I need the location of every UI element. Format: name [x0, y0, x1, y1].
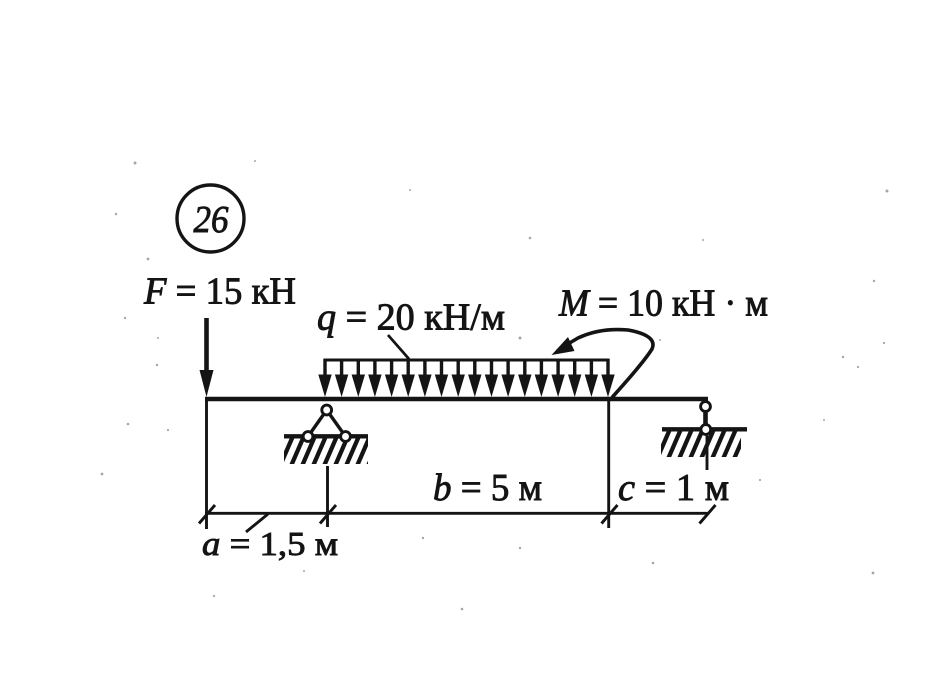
roller support hinge circles [701, 402, 711, 435]
svg-text:a = 1,5 м: a = 1,5 м [202, 526, 338, 563]
dimension tick left end [199, 505, 215, 524]
svg-text:c = 1 м: c = 1 м [618, 467, 729, 509]
svg-text:26: 26 [194, 199, 229, 241]
load arrow 5 [385, 359, 398, 397]
scan speckles [101, 160, 889, 610]
roller support link [703, 406, 708, 429]
load arrow 18 [601, 359, 614, 397]
pin support triangle [308, 410, 346, 437]
dimension tick load end [602, 505, 618, 524]
problem number circle 26 [177, 185, 244, 252]
extension line load end [607, 401, 610, 528]
pin support hinge circles [303, 405, 350, 441]
pin support ground line [284, 434, 368, 438]
load arrow 6 [402, 359, 415, 397]
extension line left end [205, 401, 208, 529]
dimension tick pin [320, 505, 336, 524]
load arrow 3 [352, 359, 365, 397]
force F arrow [200, 318, 214, 397]
pin support hatching [280, 436, 381, 466]
moment arc arrow [552, 330, 654, 398]
extra slash mark on dimension line [246, 514, 268, 532]
load arrow 17 [585, 359, 598, 397]
distributed load top line [324, 359, 610, 362]
roller support hatching [657, 429, 747, 459]
load arrow 10 [468, 359, 481, 397]
dimension line [205, 512, 709, 515]
extension line roller [706, 436, 709, 471]
load arrow 7 [418, 359, 431, 397]
load arrow 1 [318, 359, 331, 397]
beam [205, 397, 708, 402]
svg-text:M = 10 кН · м: M = 10 кН · м [558, 283, 768, 325]
extension line pin support [326, 466, 329, 527]
svg-text:F = 15 кН: F = 15 кН [143, 271, 296, 313]
load arrow 13 [518, 359, 531, 397]
leader line from q label to load [388, 335, 409, 359]
load arrow 11 [485, 359, 498, 397]
load arrow 15 [551, 359, 564, 397]
load arrow 9 [452, 359, 465, 397]
dimension tick roller [700, 505, 716, 524]
load arrow 14 [535, 359, 548, 397]
svg-text:b = 5 м: b = 5 м [433, 467, 542, 509]
load arrow 12 [501, 359, 514, 397]
roller support ground line [662, 427, 747, 431]
load arrow 4 [368, 359, 381, 397]
load arrow 8 [435, 359, 448, 397]
svg-text:q = 20 кН/м: q = 20 кН/м [317, 297, 505, 339]
load arrow 16 [568, 359, 581, 397]
load arrow 2 [335, 359, 348, 397]
